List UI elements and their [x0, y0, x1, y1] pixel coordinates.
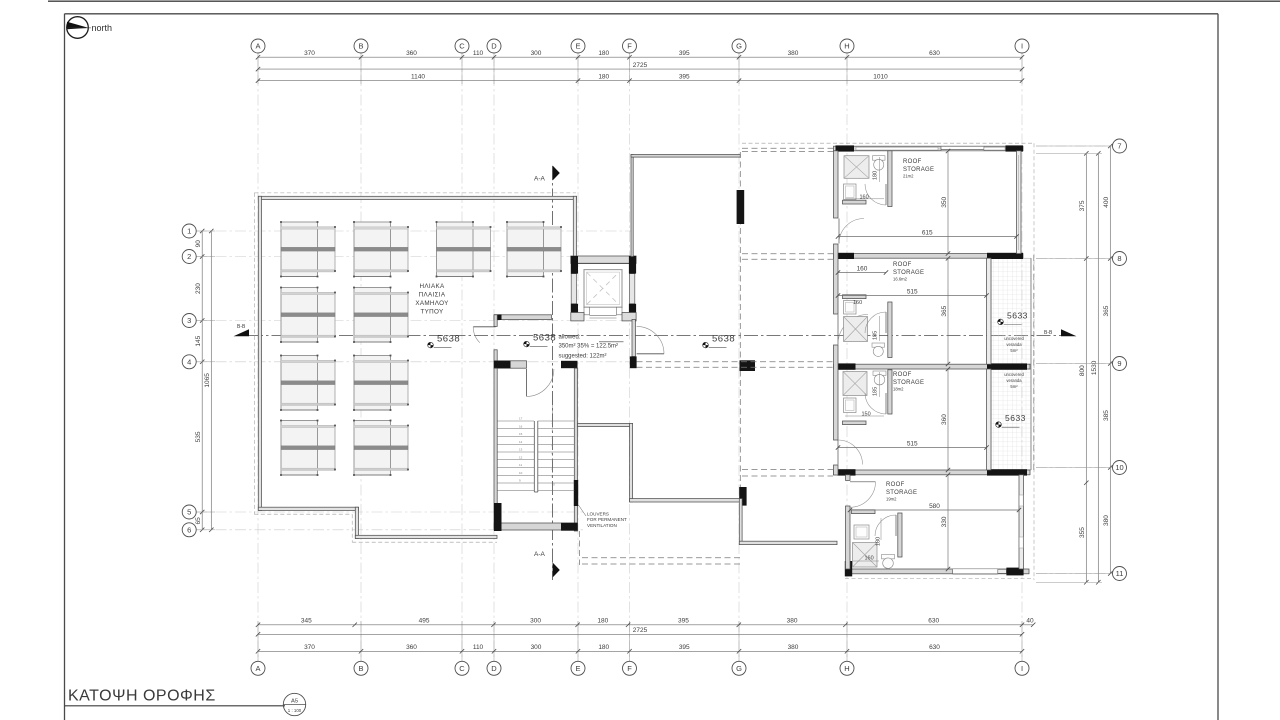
grid 11 right extension	[1036, 573, 1113, 575]
grid line A vertical	[257, 56, 259, 662]
svg-text:ROOF: ROOF	[886, 482, 905, 488]
roof eave dashed bottom2	[352, 541, 497, 543]
terrace lower edge wall v2	[739, 499, 742, 545]
right dimension total 1530	[1097, 153, 1099, 582]
section marker A-A top	[553, 166, 560, 181]
elevator cab	[584, 270, 622, 308]
wing left wall seg2	[834, 244, 839, 314]
svg-text:STORAGE: STORAGE	[893, 270, 924, 276]
bathroom1 dim 160	[845, 198, 884, 200]
svg-text:5638: 5638	[712, 334, 735, 345]
column room3/4 W	[838, 469, 856, 475]
svg-text:400: 400	[1103, 196, 1110, 207]
grid line 10 horizontal	[1036, 467, 1113, 469]
grid line 3 horizontal	[196, 320, 633, 322]
wing eave dashed right	[1033, 143, 1035, 580]
door room1 entry	[838, 219, 840, 244]
room4 left wall seg1	[846, 475, 851, 481]
grid H bottom extension	[846, 621, 848, 661]
grid bubble 3 left	[182, 314, 196, 328]
svg-text:90: 90	[195, 240, 202, 248]
svg-text:40: 40	[1026, 618, 1034, 625]
svg-text:370: 370	[304, 50, 315, 57]
right dim extension at 582	[1036, 581, 1102, 583]
roof eave dashed step	[351, 514, 353, 542]
room4 right wall windows	[1019, 495, 1023, 506]
svg-text:D: D	[491, 42, 497, 51]
grid line 8 horizontal	[1036, 258, 1113, 260]
bathroom3 bottom wall	[843, 421, 867, 425]
svg-text:STORAGE: STORAGE	[893, 380, 924, 386]
svg-text:65: 65	[195, 517, 202, 525]
grid G bottom extension	[738, 621, 740, 661]
svg-text:2725: 2725	[633, 627, 648, 634]
grid bubble C top	[455, 39, 469, 53]
svg-text:145: 145	[195, 335, 202, 346]
svg-text:15: 15	[519, 432, 523, 436]
svg-text:185: 185	[873, 387, 879, 396]
svg-text:10: 10	[552, 483, 556, 487]
grid bubble G bottom	[732, 661, 746, 675]
lobby right wall black column	[630, 356, 637, 368]
svg-text:360: 360	[406, 50, 417, 57]
svg-text:1010: 1010	[873, 73, 888, 80]
svg-text:380: 380	[787, 618, 798, 625]
bathroom1 sink	[844, 184, 857, 200]
grid line I vertical	[1021, 56, 1023, 662]
room2 dim 160	[838, 272, 886, 274]
svg-text:5m²: 5m²	[1010, 384, 1018, 389]
bathroom1 door	[885, 184, 887, 205]
grid line 11 horizontal	[1036, 573, 1113, 575]
svg-text:B-B: B-B	[237, 324, 246, 330]
wall room2/room3	[834, 364, 1031, 369]
grid bubble B bottom	[354, 661, 368, 675]
svg-text:350: 350	[941, 196, 948, 207]
svg-text:5638: 5638	[437, 334, 460, 345]
grid C bottom extension	[461, 621, 463, 661]
svg-text:580: 580	[929, 503, 940, 510]
svg-text:13: 13	[519, 448, 523, 452]
elevator door jamb E	[617, 307, 623, 315]
grid line H vertical	[846, 56, 848, 662]
elevator shaft left wall mid	[571, 274, 576, 304]
svg-text:230: 230	[195, 283, 202, 294]
room3 dim 360	[947, 369, 949, 470]
elevator shaft right wall mid	[629, 274, 634, 304]
column room1 top W	[836, 145, 855, 151]
grid 5 left extension	[196, 511, 215, 513]
grid C top extension	[461, 53, 463, 84]
bathroom4 dim 180	[880, 518, 882, 540]
svg-text:ROOF: ROOF	[903, 159, 922, 165]
wall room1 top	[834, 146, 1024, 151]
svg-text:180: 180	[597, 618, 608, 625]
svg-text:ΚΑΤΟΨΗ ΟΡΟΦΗΣ: ΚΑΤΟΨΗ ΟΡΟΦΗΣ	[68, 688, 216, 705]
wing left wall seg1	[834, 151, 839, 218]
room2 dim 365	[947, 258, 949, 364]
room1 top wall open section	[941, 147, 984, 151]
bathroom4 toilet	[882, 555, 895, 559]
svg-text:H: H	[844, 664, 849, 673]
door lobby west	[473, 326, 495, 328]
solar panel group row1 col4	[509, 227, 561, 271]
grid line B vertical	[360, 56, 362, 662]
svg-text:345: 345	[301, 618, 312, 625]
svg-text:6: 6	[187, 525, 191, 534]
bathroom2 partition wall	[888, 302, 892, 358]
door room4 entry	[850, 481, 876, 483]
bathroom3 door	[885, 393, 887, 414]
svg-text:365: 365	[941, 305, 948, 316]
wall room3/room4	[834, 470, 1031, 475]
svg-text:E: E	[575, 42, 580, 51]
svg-text:180: 180	[598, 644, 609, 651]
grid bubble G top	[732, 39, 746, 53]
svg-text:11: 11	[1116, 569, 1124, 578]
svg-text:A-A: A-A	[534, 176, 546, 183]
level marker 5633 room3 veranda	[996, 422, 1002, 428]
grid line 1 horizontal	[196, 230, 633, 232]
terrace lower dashed vertical	[579, 531, 581, 565]
grid F top extension	[629, 53, 631, 84]
door lobby east	[637, 353, 664, 355]
title underline	[65, 705, 286, 707]
title scale circle	[283, 693, 305, 715]
svg-text:uncovered: uncovered	[1004, 336, 1024, 341]
wall left-roof bottom edge 2	[355, 535, 497, 538]
solar panel group row1 col1	[283, 227, 335, 271]
svg-text:14: 14	[519, 440, 523, 444]
top dimension total 2725	[258, 68, 1022, 70]
svg-text:B: B	[358, 42, 363, 51]
room2 dim 515	[838, 295, 987, 297]
svg-text:16: 16	[519, 424, 523, 428]
left dimension chain	[201, 231, 203, 530]
room1 right wall window lines	[1018, 155, 1020, 250]
bathroom4 shower	[853, 543, 878, 568]
solar panel group row3 col2	[356, 361, 408, 405]
grid bubble D top	[487, 39, 501, 53]
top dimension chain row1	[258, 56, 1022, 58]
svg-text:ΗΛΙΑΚΑ: ΗΛΙΑΚΑ	[420, 283, 445, 290]
svg-text:LOUVERS: LOUVERS	[587, 512, 609, 517]
grid 3 left extension	[196, 320, 215, 322]
grid 4 left extension	[196, 361, 215, 363]
lobby top wall black column	[494, 314, 502, 320]
door room2 entry	[837, 315, 839, 345]
bathroom3 partition wall	[888, 370, 892, 414]
terrace dashed vertical G	[739, 152, 741, 487]
stair treads and stringer	[497, 420, 534, 422]
level marker 5638 terrace	[703, 342, 709, 348]
svg-text:E: E	[575, 664, 580, 673]
wing left wall seg4	[834, 465, 839, 475]
grid bubble C bottom	[455, 661, 469, 675]
right dimension chain outer	[1109, 146, 1111, 574]
section line B-B	[249, 335, 1062, 337]
svg-text:180: 180	[598, 50, 609, 57]
svg-text:300: 300	[530, 618, 541, 625]
grid E bottom extension	[577, 621, 579, 661]
svg-text:9: 9	[1117, 359, 1121, 368]
room1 right wall	[1017, 151, 1022, 254]
svg-text:3: 3	[187, 316, 191, 325]
svg-text:4: 4	[187, 357, 191, 366]
grid line 5 horizontal	[196, 511, 586, 513]
lobby left wall lower	[494, 350, 497, 368]
svg-text:330: 330	[941, 516, 948, 527]
grid bubble 6 left	[182, 523, 196, 537]
svg-text:A: A	[255, 42, 260, 51]
veranda hatched area y369	[991, 369, 1031, 470]
svg-text:11: 11	[519, 463, 522, 467]
grid line 9 horizontal	[1036, 363, 1113, 365]
svg-text:17: 17	[519, 417, 523, 421]
grid I bottom extension	[1021, 621, 1023, 661]
svg-text:1065: 1065	[204, 373, 211, 388]
lobby top wall	[494, 315, 551, 320]
room1 dim 615	[838, 236, 1017, 238]
grid 9 right extension	[1036, 363, 1113, 365]
svg-text:630: 630	[929, 50, 940, 57]
column room1 top E	[1006, 145, 1024, 151]
top dimension chain row3	[258, 80, 1022, 82]
grid bubble F bottom	[623, 661, 637, 675]
grid bubble I top	[1015, 39, 1029, 53]
svg-text:G: G	[736, 42, 742, 51]
svg-text:180: 180	[873, 171, 879, 180]
svg-text:495: 495	[419, 618, 430, 625]
terrace lower dashed band 2	[582, 563, 741, 565]
level marker 5638 roof	[428, 342, 434, 348]
room1 top wall window 2	[984, 147, 1005, 150]
bathroom4 dim 160	[853, 560, 879, 562]
terrace lower edge wall h1	[578, 423, 633, 426]
svg-text:21m2: 21m2	[903, 174, 914, 179]
room4 right wall	[1019, 475, 1024, 569]
wall left-roof top edge	[258, 196, 576, 199]
svg-text:360: 360	[406, 644, 417, 651]
svg-text:150: 150	[862, 412, 871, 418]
grid bubble 5 left	[182, 505, 196, 519]
bottom dimension chain row3	[258, 650, 1022, 652]
svg-text:F: F	[627, 42, 632, 51]
svg-text:A: A	[255, 664, 260, 673]
grid bubble 8 right	[1113, 252, 1127, 266]
solar panel group row3 col1	[283, 361, 335, 405]
grid 1 left extension	[196, 230, 215, 232]
grid bubble 11 right	[1113, 567, 1127, 581]
svg-text:10: 10	[519, 471, 523, 475]
svg-text:5638: 5638	[533, 333, 556, 344]
grid F bottom extension	[629, 621, 631, 661]
grid bubble E bottom	[571, 661, 585, 675]
svg-text:ROOF: ROOF	[893, 262, 912, 268]
section marker B-B left	[234, 329, 250, 336]
grid line 2 horizontal	[196, 256, 633, 258]
bathroom1 partition wall	[888, 151, 892, 207]
svg-text:2: 2	[187, 252, 191, 261]
svg-text:110: 110	[473, 644, 484, 651]
svg-text:16.6m2: 16.6m2	[893, 277, 908, 282]
room3 dim 515	[838, 447, 987, 449]
column G lower	[739, 487, 746, 506]
wall room4 bottom	[846, 569, 1030, 574]
svg-text:395: 395	[679, 50, 690, 57]
terrace dashed band W2a	[742, 253, 833, 255]
svg-text:180: 180	[598, 73, 609, 80]
elevator shaft bottom wall E	[622, 313, 636, 321]
svg-text:VENTILATION: VENTILATION	[587, 523, 617, 528]
svg-text:360: 360	[941, 414, 948, 425]
terrace dashed band W2b	[742, 258, 833, 260]
right dimension chain inner	[1085, 153, 1087, 582]
wall left-roof left edge	[258, 196, 261, 510]
wall room1/room2	[834, 254, 1024, 259]
elevator shaft bottom wall W	[571, 313, 584, 321]
svg-text:185: 185	[873, 331, 879, 340]
bathroom4 top wall	[852, 510, 876, 514]
door lobby to stairs	[526, 369, 528, 396]
elevator door lines	[590, 314, 617, 316]
room1 top wall window 1	[856, 147, 938, 150]
svg-text:I: I	[1021, 664, 1023, 673]
grid 6 left extension	[196, 529, 215, 531]
stair bottom wall	[494, 523, 578, 530]
lobby bottom wall black column W	[494, 361, 511, 368]
bathroom1 bottom wall	[843, 200, 867, 204]
column room3/4 E	[987, 469, 1027, 475]
svg-text:B-B: B-B	[1044, 330, 1053, 336]
section line A-A	[552, 166, 554, 580]
svg-text:515: 515	[907, 440, 918, 447]
lobby left wall upper	[494, 315, 497, 327]
grid bubble H top	[840, 39, 854, 53]
grid bubble E top	[571, 39, 585, 53]
bathroom3 dim 185	[879, 372, 881, 397]
svg-text:C: C	[459, 42, 465, 51]
svg-text:380: 380	[788, 644, 799, 651]
bathroom2 shower	[844, 317, 868, 342]
bottom dimension total 2725	[258, 633, 1022, 635]
elevator column SE	[629, 304, 636, 321]
bathroom2 door	[885, 312, 887, 333]
svg-text:10: 10	[1115, 463, 1123, 472]
grid line G vertical	[738, 56, 740, 662]
svg-text:300: 300	[531, 50, 542, 57]
svg-text:north: north	[92, 23, 113, 33]
column room4 bottom E	[1006, 568, 1023, 576]
column room2/3 W	[838, 363, 856, 369]
terrace lower dashed band 1	[582, 557, 741, 559]
section marker A-A bottom	[553, 563, 560, 578]
level marker 5638 lobby	[524, 341, 530, 347]
grid D bottom extension	[493, 621, 495, 661]
terrace dashed band W4a	[742, 469, 833, 471]
grid bubble 1 left	[182, 224, 196, 238]
svg-text:18m2: 18m2	[893, 387, 904, 392]
grid bubble I bottom	[1015, 661, 1029, 675]
grid H top extension	[846, 53, 848, 84]
svg-text:5633: 5633	[1007, 310, 1028, 320]
bathroom2 toilet	[872, 343, 885, 347]
grid A bottom extension	[257, 621, 259, 661]
terrace top edge wall	[631, 155, 740, 158]
svg-text:H: H	[844, 42, 849, 51]
bathroom3 dim 150	[845, 415, 884, 417]
svg-text:355: 355	[1079, 527, 1086, 538]
svg-text:7: 7	[1117, 142, 1121, 151]
terrace left wall upper	[631, 155, 633, 257]
grid bubble H bottom	[840, 661, 854, 675]
grid 7 right extension	[1036, 145, 1113, 147]
grid line C vertical	[461, 56, 463, 662]
svg-text:160: 160	[865, 556, 874, 562]
svg-text:ROOF: ROOF	[893, 372, 912, 378]
svg-text:STORAGE: STORAGE	[903, 167, 934, 173]
svg-text:8: 8	[1117, 254, 1121, 263]
elevator shaft top wall	[571, 256, 636, 263]
rooms right wall 2	[987, 258, 992, 364]
svg-text:370: 370	[304, 644, 315, 651]
drawing border left	[64, 14, 66, 720]
column G middle	[740, 360, 756, 371]
svg-text:180: 180	[876, 537, 882, 546]
wing eave dashed top	[742, 142, 1034, 144]
svg-text:395: 395	[678, 618, 689, 625]
svg-text:160: 160	[860, 194, 869, 200]
grid E top extension	[577, 53, 579, 84]
room1 dim 350	[947, 151, 949, 254]
svg-text:630: 630	[929, 644, 940, 651]
svg-text:veranda: veranda	[1006, 378, 1022, 383]
room4 left wall seg2	[846, 506, 851, 569]
bathroom4 partition wall	[898, 513, 902, 557]
grid bubble 9 right	[1113, 357, 1127, 371]
solar panel group row2 col2	[356, 293, 408, 337]
column G upper	[737, 190, 745, 224]
bathroom2 dim 185	[879, 316, 881, 341]
drawing border top	[65, 13, 1219, 15]
wall left-roof step vertical	[355, 507, 358, 538]
wing eave dashed bottom	[845, 578, 1034, 580]
lobby right wall	[632, 319, 635, 356]
stair bottom black column E	[561, 523, 578, 531]
grid 8 right extension	[1036, 258, 1113, 260]
bottom dimension chain row1	[258, 624, 1033, 626]
terrace top dashed edge 2	[742, 150, 834, 152]
svg-text:615: 615	[922, 229, 933, 236]
room4 bottom wall jamb	[998, 569, 1007, 573]
svg-text:1: 1	[187, 227, 191, 236]
roof eave dashed top	[254, 192, 576, 194]
svg-text:375: 375	[1079, 200, 1086, 211]
svg-text:160: 160	[857, 265, 868, 272]
svg-text:365: 365	[1103, 305, 1110, 316]
grid B bottom extension	[360, 621, 362, 661]
svg-text:1140: 1140	[411, 73, 425, 80]
stair bottom black column W	[494, 503, 502, 531]
grid line F vertical	[629, 56, 631, 662]
grid bubble 2 left	[182, 250, 196, 264]
solar panel group row1 col3	[439, 227, 491, 271]
grid G top extension	[738, 53, 740, 84]
solar panel group row2 col1	[283, 293, 335, 337]
grid line 4 horizontal	[196, 361, 633, 363]
grid bubble A bottom	[251, 661, 265, 675]
svg-text:800: 800	[1079, 365, 1086, 376]
